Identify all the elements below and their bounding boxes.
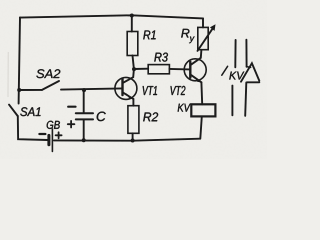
variable resistor Ry arrowhead [210,24,216,31]
switch SA2 blade [42,81,59,90]
transistor VT2 collector [191,50,202,65]
node C top junction [82,88,86,92]
faint scan streak left edge [7,52,9,97]
node left rail SA2 junction [17,88,21,92]
node R1 R3 VT1 junction [132,67,136,71]
transistor VT2 emitter lead [200,82,203,104]
relay coil KV body [191,104,215,116]
transistor VT2 base bar [189,62,191,78]
minus sign of capacitor C [68,106,75,108]
node R2 bottom junction [131,139,135,143]
capacitor C bottom plate [76,118,93,120]
battery GB negative plate [47,135,50,144]
KV contact blade triangle [241,63,259,81]
label Ry [181,29,194,43]
transistor VT1 emitter lead [132,99,134,106]
label GB [47,121,60,129]
KV contact seat bar [247,81,259,83]
transistor VT1 collector [123,69,134,83]
label C [97,112,106,122]
resistor R2 body [128,106,139,134]
wire left rail [19,17,20,103]
label R1 [143,31,155,40]
relay coil KV bottom lead [200,116,202,138]
label SA2 [36,69,60,78]
KV contact left wire upper [234,40,236,67]
label VT2 [171,86,186,95]
label SA1 [20,107,40,116]
transistor VT2 emitter arrowhead [194,77,201,83]
transistor VT1 base bar [121,79,123,95]
transistor VT1 circle [115,77,137,99]
label KV coil [178,104,191,112]
transistor VT1 emitter arrowhead [126,93,133,99]
minus sign of battery GB [39,133,45,135]
switch SA1 [9,105,18,116]
node C bottom junction [82,138,86,142]
plus sign of capacitor C [68,123,75,125]
label KV contact [229,72,244,80]
plus sign of battery GB [56,134,62,136]
resistor R1 top lead [131,15,133,31]
paper background [0,0,267,159]
variable resistor Ry top lead [202,18,204,27]
variable resistor Ry arrow shaft [198,27,214,51]
KV contact right wire upper [245,40,247,67]
transistor VT1 emitter [123,93,133,99]
capacitor C top lead [83,90,85,113]
label R3 [154,53,168,62]
transistor VT2 circle [184,59,206,81]
resistor R1 body [127,32,138,56]
resistor R2 bottom lead [132,133,134,140]
wire bottom rail [54,139,200,141]
capacitor C bottom lead [83,120,85,140]
label R2 [143,112,158,121]
capacitor C top plate [76,112,93,114]
KV contact fixed hook [247,66,251,69]
resistor R3 body [148,65,169,74]
KV label flourish [222,66,228,75]
wire R3 to VT2 base [169,68,190,71]
battery GB positive plate [51,129,53,152]
resistor R1 bottom lead [133,56,134,70]
label VT1 [143,86,157,95]
node top rail R1 junction [130,14,134,18]
wire SA2 branch stub [19,89,42,91]
KV contact left wire lower [231,86,233,116]
wire left rail lower [18,116,48,140]
variable resistor Ry body [198,27,208,49]
wire SA2 to VT1 base [61,88,123,89]
transistor VT2 emitter [191,75,202,83]
KV contact right wire lower [245,83,246,116]
wire top rail [20,15,203,18]
wire node to R3 [134,68,148,70]
